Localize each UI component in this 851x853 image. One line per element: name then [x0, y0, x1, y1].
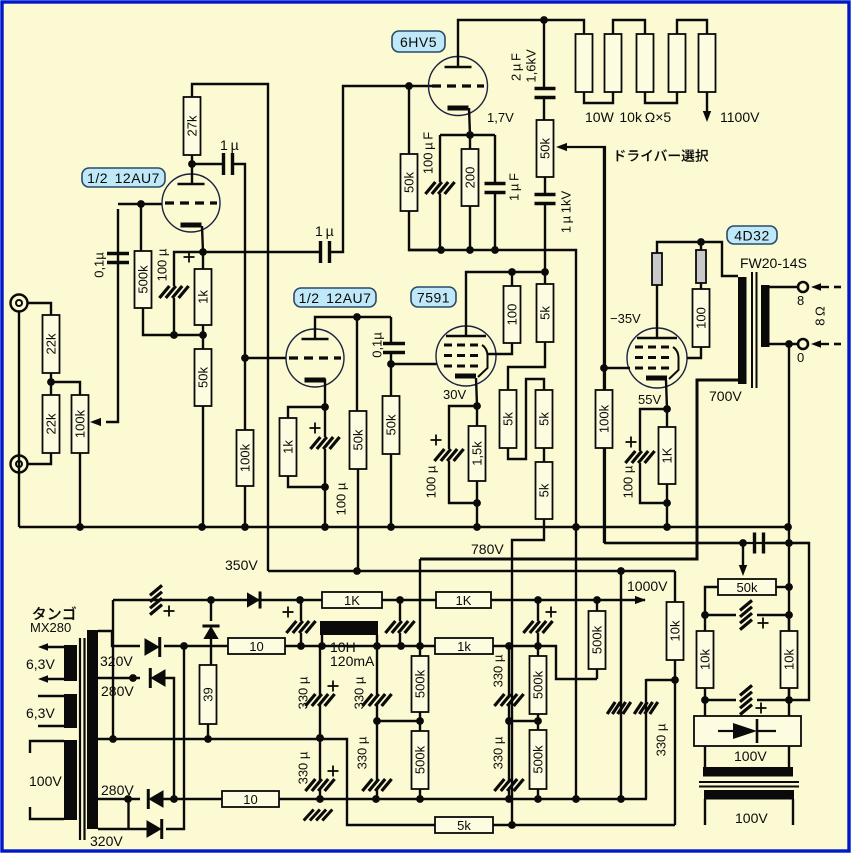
wire 320V bottom riser: [166, 646, 184, 829]
resistor 100 7591 screen: [504, 286, 521, 343]
wire jack J1 to R 22k: [27, 303, 51, 315]
svg-text:100k: 100k: [73, 409, 88, 438]
label box 1/2 12AU7 second: [294, 288, 376, 307]
wire cathode node to 1k: [288, 407, 325, 418]
wire box top leads: [705, 700, 789, 716]
wire ecap top to cathode node: [174, 252, 203, 286]
wire bank R5 output arrow 1100V: [703, 92, 711, 122]
wire C to 500k col D: [509, 717, 542, 725]
wire cathode row: [440, 134, 495, 136]
svg-text:0,1µ: 0,1µ: [370, 332, 385, 358]
svg-text:50k: 50k: [737, 580, 758, 595]
arrow into terminal 8: [811, 283, 841, 291]
resistor bank R5 10k: [699, 34, 716, 92]
wire rail2 647: [285, 642, 597, 679]
wire 0.1u top: [390, 317, 392, 343]
wire 500k bottom to node row: [143, 308, 204, 335]
resistor 22k lower: [43, 395, 60, 453]
svg-text:330 µ: 330 µ: [654, 723, 669, 756]
svg-text:10: 10: [243, 792, 257, 807]
label 0: [797, 350, 804, 365]
wire OPT primary bottom to 780V feed: [420, 380, 746, 559]
plus sign A2: [328, 766, 339, 777]
wire 10k bottom node: [671, 660, 679, 825]
wire grid node to 50k: [408, 86, 410, 154]
label 780V: [471, 541, 504, 557]
wire 280V bottom tap: [98, 795, 140, 803]
label 330u B1 rotated: [352, 676, 367, 709]
svg-text:5k: 5k: [457, 818, 471, 833]
diode D2 doubler: [202, 626, 219, 639]
electrolytic 100uF 6HV5: [425, 182, 454, 194]
svg-text:8 Ω: 8 Ω: [813, 306, 828, 326]
resistor 50k 6HV5 grid leak: [401, 154, 418, 211]
wire cathode to bias ecap: [640, 409, 667, 451]
svg-text:780V: 780V: [471, 541, 504, 557]
transformer PT winding 6.3V a: [64, 645, 77, 681]
wire grid bias line 4D32: [600, 364, 630, 372]
electrolytic 100u 7591 cathode: [434, 449, 463, 461]
resistor 5k bottom: [435, 817, 493, 833]
arrow down to 50k pot: [739, 543, 747, 576]
svg-text:10: 10: [249, 639, 263, 654]
wire bank R2-R3 top link: [613, 20, 645, 34]
svg-text:4D32: 4D32: [734, 228, 769, 244]
input jack J2 (bottom): [11, 456, 28, 473]
transformer OPT secondary bar: [761, 285, 770, 347]
wire OPT secondary top to terminal 8: [769, 286, 797, 288]
wire 1k bottom to node: [288, 476, 325, 487]
resistor gray parasitic G1: [652, 253, 662, 285]
capacitor 0.1u (first stage grid): [107, 254, 129, 263]
svg-text:350V: 350V: [225, 557, 258, 573]
tube U3 6HV5: [429, 57, 488, 116]
resistor 500k D1: [530, 656, 547, 714]
resistor 100k T2 grid leak: [237, 430, 254, 486]
label 330u E rotated: [654, 723, 669, 756]
label -35V: [610, 311, 641, 326]
wire col A: [316, 646, 324, 799]
svg-text:100 µ F: 100 µ F: [421, 132, 436, 174]
svg-text:MX280: MX280: [30, 620, 71, 635]
resistor 50k T1 tail: [195, 349, 212, 406]
svg-text:200: 200: [463, 167, 478, 189]
svg-text:10W 10k Ω×5: 10W 10k Ω×5: [585, 109, 671, 125]
label 10W 10k ohm x5: [585, 109, 671, 125]
svg-text:5k: 5k: [501, 412, 516, 426]
svg-text:330 µ: 330 µ: [296, 751, 311, 784]
wire 50k bottom to gnd row: [409, 211, 441, 250]
wire 100 top: [511, 272, 513, 286]
svg-text:10k: 10k: [782, 649, 797, 670]
electrolytic 100u T2 cathode: [310, 437, 339, 449]
label MX280: [30, 620, 71, 635]
resistor bank R1 10k: [576, 34, 593, 92]
label 30V: [443, 387, 466, 402]
svg-text:500k: 500k: [413, 669, 428, 698]
wire jack J2 to 22k bottom: [27, 453, 51, 464]
wire chain b bottom: [419, 789, 421, 799]
label 1.7V: [487, 110, 514, 125]
wire heater 6.3V a bottom arrow: [38, 675, 64, 683]
label 100u rotated: [155, 248, 170, 281]
svg-text:100 µ: 100 µ: [424, 465, 439, 498]
pot wiper arrowhead: [90, 418, 101, 426]
wire screen to 100: [488, 343, 512, 354]
wire plate node down to 50k plate load: [356, 317, 358, 411]
label 350V: [225, 557, 258, 573]
transformer PT core: [80, 638, 85, 840]
tube U4 7591: [436, 326, 496, 386]
diode D280b: [148, 789, 163, 809]
resistor bank R3 10k: [637, 34, 654, 92]
wire x621 divider: [620, 571, 622, 799]
label 100u T2 rotated: [334, 482, 349, 515]
plus sign C3: [546, 607, 557, 618]
svg-text:280V: 280V: [101, 683, 134, 699]
wire terminal 0 ground drop: [788, 344, 790, 527]
electrolytic NFB 2: [740, 685, 752, 714]
resistor 5k c: [536, 390, 553, 448]
resistor 1.5k 7591 cathode: [469, 426, 486, 481]
wire 10k node branch: [646, 679, 675, 681]
svg-text:1K: 1K: [456, 593, 472, 608]
wire top rail to resistor bank: [544, 20, 584, 34]
capacitor 1u coupling first: [224, 153, 233, 175]
wire C2 leads: [399, 600, 401, 646]
label 320V bottom: [90, 833, 123, 849]
wire left branch to 100uF ecap: [439, 135, 441, 182]
svg-text:55V: 55V: [638, 392, 661, 407]
wire 50k pot to 1u 1kV: [544, 177, 546, 194]
potentiometer 50k driver level: [537, 120, 554, 177]
label 1u second: [315, 223, 334, 239]
wire T2 plate to top node row: [315, 313, 391, 340]
transformer HT winding top: [703, 767, 793, 777]
wire grid node down to 500k: [140, 204, 142, 251]
svg-text:50k: 50k: [196, 367, 211, 388]
label 330u C1 rotated: [491, 654, 506, 687]
svg-text:330 µ: 330 µ: [296, 676, 311, 709]
wire mains 100V top: [30, 741, 64, 753]
label 100V heater b: [735, 810, 768, 826]
resistor 500k chain b: [412, 731, 429, 789]
wire cathode row to 50k feedback: [202, 335, 204, 349]
wire 780V drop x420: [419, 559, 421, 646]
plus sign 100u: [184, 252, 195, 263]
wire divider to 100k top: [51, 382, 80, 395]
svg-text:6HV5: 6HV5: [400, 34, 437, 50]
capacitor 1u 1kV: [535, 195, 556, 204]
wire 0.1u bottom node: [387, 353, 437, 368]
svg-text:500k: 500k: [531, 745, 546, 774]
wire grid leak to bus: [390, 364, 392, 527]
resistor 1K 4D32 cathode: [659, 427, 676, 484]
diode D320b: [147, 819, 162, 839]
resistor 5k d: [536, 462, 553, 519]
label Tango: [33, 606, 76, 620]
label 0.1u rotated: [92, 252, 107, 278]
label 55V: [638, 392, 661, 407]
wire ecap to gnd row: [439, 194, 441, 250]
resistor 10 upper: [228, 638, 285, 654]
wire G1 top to anode rail: [657, 238, 738, 276]
transformer PT winding 6.3V b: [64, 694, 77, 728]
plus sign NFB1: [758, 618, 769, 629]
ground symbol main: [304, 810, 333, 821]
wire box bottom leads: [705, 746, 789, 767]
wire 7591 cathode node: [473, 378, 481, 426]
svg-text:320V: 320V: [100, 653, 133, 669]
wire right branch to 1uF: [494, 135, 496, 183]
wire heater 6.3V a top arrow: [38, 643, 64, 651]
svg-text:320V: 320V: [90, 833, 123, 849]
label 1uF rotated: [507, 173, 522, 201]
label 280V bottom: [101, 782, 134, 798]
wire 200 bottom to gnd row: [469, 206, 471, 250]
electrolytic 330u A2: [305, 779, 334, 791]
wire heater 6.3V b bottom: [38, 725, 64, 727]
choke 10H bar: [320, 621, 378, 635]
label FW20-14S: [740, 255, 807, 271]
plus sign NFB2: [756, 703, 767, 714]
label box 4D32: [727, 226, 777, 244]
svg-text:500k: 500k: [413, 745, 428, 774]
resistor 10k psu: [667, 602, 684, 660]
node divider junction: [47, 373, 55, 395]
svg-text:1K: 1K: [660, 447, 675, 463]
svg-text:330 µ: 330 µ: [355, 736, 370, 769]
wire chain a leads: [419, 646, 421, 731]
svg-text:100V: 100V: [734, 748, 767, 764]
wire 350V line: [268, 567, 675, 575]
wire 350V to 10k: [674, 571, 676, 602]
svg-text:1 µ: 1 µ: [315, 223, 334, 239]
wire 27k top to B+ 350V drop line: [192, 84, 268, 571]
wire x245 down to 100k and bus: [244, 358, 246, 527]
resistor 100k 4D32 grid: [596, 390, 613, 448]
svg-text:−35V: −35V: [610, 311, 641, 326]
resistor 1k T2 cathode: [280, 418, 297, 476]
label 100uF rotated: [421, 132, 436, 174]
resistor 500k D2: [530, 730, 547, 789]
wire 6HV5 plate to top rail: [458, 16, 548, 68]
svg-text:30V: 30V: [443, 387, 466, 402]
svg-text:1k: 1k: [281, 440, 296, 454]
wire OPT secondary bottom to terminal 0: [769, 340, 797, 348]
capacitor 2uF 1.6kV: [535, 89, 556, 98]
plus sign A1: [328, 681, 339, 692]
wire cap line y543: [605, 539, 747, 547]
resistor 1K PSU a: [322, 592, 382, 608]
svg-text:100V: 100V: [735, 810, 768, 826]
wire bank R4-R5 top link: [677, 20, 707, 34]
tube U2 12AU7 second half: [286, 329, 344, 387]
wire T1 grid node: [118, 200, 162, 208]
resistor 500k grid leak: [135, 251, 152, 308]
capacitor 1u coupling to 6HV5: [321, 241, 330, 263]
wire doubler diode chain: [210, 600, 212, 665]
label 1100V: [720, 109, 760, 125]
terminal 0 circle: [798, 339, 808, 349]
wire 320V top tap to diode: [98, 631, 140, 646]
svg-text:50k: 50k: [384, 414, 399, 435]
wire B to 500k chain: [377, 717, 424, 725]
svg-text:50k: 50k: [351, 429, 366, 450]
transformer HT winding bottom: [704, 790, 794, 800]
plus sign T2 ecap: [310, 423, 321, 434]
label box 7591: [411, 287, 456, 307]
svg-text:1000V: 1000V: [627, 578, 668, 594]
wire ecap bottom to node: [449, 461, 477, 503]
resistor 1K PSU b: [436, 592, 491, 608]
wire 500k top: [596, 600, 598, 679]
resistor 22k upper: [43, 315, 60, 373]
label driver select: [617, 149, 709, 162]
wire T1 cathode lead: [199, 226, 207, 269]
electrolytic NFB 1: [740, 600, 752, 629]
capacitor NFB: [755, 533, 764, 554]
input jack J1 (top): [11, 295, 28, 312]
label 100V mains: [29, 773, 62, 789]
svg-text:100: 100: [505, 304, 520, 326]
transformer OPT core lines: [752, 272, 757, 388]
plus sign 7591 ecap: [431, 435, 442, 446]
wire 50k plate load to 350V line: [357, 469, 359, 571]
resistor 1k T1 cathode: [195, 269, 212, 325]
resistor 5k a: [537, 284, 554, 342]
wire 100 bottom to screen: [687, 347, 701, 358]
svg-text:5k: 5k: [537, 483, 552, 497]
svg-text:500k: 500k: [590, 625, 605, 654]
svg-text:1,7V: 1,7V: [487, 110, 514, 125]
wire 1K to bus: [663, 484, 671, 527]
wire col B: [373, 646, 381, 799]
wire cap line right: [766, 539, 809, 700]
label 700V: [709, 388, 742, 404]
plus sign 4D32 ecap: [626, 437, 637, 448]
label 6.3V b: [26, 705, 55, 721]
label 280V top: [101, 683, 134, 699]
resistor 10 lower: [222, 791, 279, 807]
wire D leads: [537, 646, 539, 799]
terminal 8 circle: [798, 282, 808, 292]
label 120mA: [330, 653, 375, 669]
label 1.6kV rotated: [524, 49, 539, 83]
wire ecap to bus: [321, 449, 329, 527]
resistor bank R4 10k: [669, 34, 686, 92]
wire top rail to 2uF: [543, 20, 545, 88]
wire plate node to coupling cap: [192, 163, 222, 165]
transformer OPT primary bar: [738, 277, 747, 384]
wire 1.5k to bus: [473, 481, 481, 527]
capacitor 0.1u coupling to 7591: [383, 344, 405, 353]
wire rail 799 bottom: [279, 795, 647, 803]
pot wiper arrow: [556, 143, 809, 543]
electrolytic 330u B1: [362, 694, 391, 706]
wire 5k d bottom to 780V drop: [512, 519, 544, 825]
wire 5k a bottom jog: [508, 342, 545, 390]
wire cathode to ecap: [449, 406, 477, 449]
svg-text:5k: 5k: [537, 412, 552, 426]
resistor 1k PSU c: [435, 638, 493, 654]
transformer PT winding 100V: [64, 740, 77, 820]
svg-text:500k: 500k: [531, 670, 546, 699]
wire 39 bottom to CT wire: [207, 724, 209, 739]
electrolytic 100u T1 cathode bypass: [159, 286, 188, 298]
tube U1 12AU7 first half: [162, 174, 220, 232]
resistor 500k chain a: [412, 656, 429, 712]
svg-text:10k: 10k: [668, 620, 683, 641]
electrolytic 330u C2: [494, 779, 523, 791]
rectifier box: [694, 716, 801, 746]
diode D1 rail1: [247, 591, 260, 608]
svg-text:1K: 1K: [344, 593, 360, 608]
wire 4D32 plate lead: [656, 285, 658, 338]
electrolytic PSU C3: [523, 621, 552, 633]
svg-text:100: 100: [694, 307, 709, 329]
wire x646 branch: [645, 679, 647, 799]
wire 280V-320V link: [127, 800, 129, 829]
wire C3 leads: [537, 600, 539, 646]
electrolytic series cap rail1: [150, 585, 162, 614]
svg-text:10k: 10k: [698, 649, 713, 670]
wire 1uF to gnd row: [494, 192, 496, 250]
wire 50k tail to ground bus: [202, 406, 204, 527]
svg-text:1k: 1k: [196, 290, 211, 304]
arrowhead 1000V rail1: [635, 596, 646, 604]
wire 5k b bottom route to 5k c top: [508, 379, 544, 459]
svg-text:100 µ: 100 µ: [334, 482, 349, 515]
svg-text:1/2 12AU7: 1/2 12AU7: [299, 290, 372, 306]
svg-text:7591: 7591: [417, 290, 450, 306]
resistor 100 4D32 screen: [693, 289, 710, 347]
arrow into terminal 0: [811, 340, 841, 348]
resistor 39 doubler: [200, 665, 217, 724]
wire x789 drop: [788, 527, 790, 700]
wire mains 100V bottom: [30, 807, 64, 819]
resistor 5k b: [500, 390, 517, 448]
label box 6HV5: [392, 31, 445, 52]
svg-text:100k: 100k: [597, 404, 612, 433]
resistor bank R2 10k: [605, 34, 622, 92]
svg-text:1 µ 1kV: 1 µ 1kV: [559, 191, 574, 234]
tube U5 4D32: [627, 328, 687, 388]
wire 1k bottom: [202, 325, 204, 335]
resistor 10k left: [697, 631, 714, 688]
svg-text:8: 8: [797, 293, 804, 308]
transformer HT core: [699, 782, 799, 787]
svg-text:1k: 1k: [457, 639, 471, 654]
electrolytic PSU C2: [385, 621, 414, 633]
electrolytic 330u A1: [305, 694, 334, 706]
label 1u1kV rotated: [559, 191, 574, 234]
label 100V heater a: [734, 748, 767, 764]
svg-text:1100V: 1100V: [720, 109, 760, 125]
svg-text:100 µ: 100 µ: [155, 248, 170, 281]
wire bias line down: [603, 147, 605, 543]
label 8: [797, 293, 804, 308]
wire 100k pot bottom to ground bus: [79, 453, 81, 527]
svg-text:50k: 50k: [402, 172, 417, 193]
label 2uF rotated: [509, 53, 524, 81]
wire grid T2: [241, 354, 286, 362]
label 100u 7591 rotated: [424, 465, 439, 498]
svg-text:50k: 50k: [538, 138, 553, 159]
wire rail1 left drop to CT: [109, 600, 117, 743]
wire grid feed with 0.1u cap down to pot wiper arrow: [106, 209, 118, 422]
electrolytic 330u B2: [362, 779, 391, 791]
